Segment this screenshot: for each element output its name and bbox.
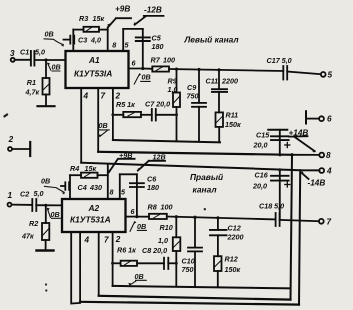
- svg-text:6: 6: [327, 115, 332, 124]
- svg-text:47к: 47к: [21, 232, 34, 241]
- svg-text:750: 750: [182, 265, 194, 274]
- svg-text:С17 5,0: С17 5,0: [267, 56, 292, 65]
- svg-text:2200: 2200: [227, 233, 244, 242]
- svg-text:20,0: 20,0: [252, 182, 267, 191]
- svg-text:А2: А2: [88, 203, 100, 213]
- svg-text:3: 3: [10, 49, 15, 58]
- svg-text:0В: 0В: [45, 30, 54, 39]
- svg-text:1,0: 1,0: [158, 236, 168, 245]
- svg-text:4: 4: [326, 167, 332, 176]
- svg-text:0В: 0В: [99, 121, 108, 130]
- svg-text:С1: С1: [20, 48, 29, 57]
- svg-text:100: 100: [161, 203, 173, 212]
- svg-text:180: 180: [152, 42, 164, 51]
- svg-text:150к: 150к: [225, 265, 241, 274]
- svg-text:-14В: -14В: [308, 179, 326, 188]
- svg-text:8: 8: [326, 151, 331, 160]
- svg-text:А1: А1: [88, 55, 100, 65]
- svg-text:2200: 2200: [221, 77, 238, 86]
- svg-text:С15: С15: [256, 131, 270, 140]
- svg-text:0В: 0В: [135, 272, 144, 281]
- svg-text:0В: 0В: [41, 177, 50, 186]
- svg-text:С16: С16: [255, 171, 269, 180]
- svg-text:4: 4: [84, 236, 90, 245]
- svg-text:R1: R1: [27, 78, 36, 87]
- svg-text:8: 8: [112, 41, 116, 50]
- svg-text:R6 1к: R6 1к: [117, 246, 136, 255]
- svg-text:С3: С3: [78, 36, 87, 45]
- svg-text:R2: R2: [29, 219, 38, 228]
- svg-text:4,0: 4,0: [90, 36, 101, 45]
- svg-text:R5 1к: R5 1к: [116, 100, 135, 109]
- svg-text:4: 4: [83, 92, 89, 101]
- svg-text:1,0: 1,0: [168, 85, 178, 94]
- svg-text:0В: 0В: [51, 210, 60, 219]
- svg-text:5: 5: [328, 71, 333, 80]
- svg-text:2: 2: [115, 235, 121, 244]
- svg-text:канал: канал: [193, 185, 218, 195]
- svg-text:R8: R8: [148, 203, 157, 212]
- svg-text:2: 2: [8, 135, 14, 144]
- svg-text:R10: R10: [160, 223, 173, 232]
- svg-text:R12: R12: [225, 255, 238, 264]
- svg-text:4,7к: 4,7к: [25, 88, 40, 97]
- svg-text:Правый: Правый: [190, 172, 223, 182]
- svg-text:С7 20,0: С7 20,0: [145, 100, 170, 109]
- svg-text:100: 100: [163, 56, 175, 65]
- svg-text:180: 180: [147, 183, 159, 192]
- svg-text:12В: 12В: [153, 153, 166, 162]
- svg-text:+14В: +14В: [289, 129, 309, 138]
- svg-text:R4: R4: [70, 164, 79, 173]
- svg-text:5,0: 5,0: [34, 189, 44, 198]
- svg-text:R7: R7: [151, 56, 161, 65]
- svg-text:750: 750: [187, 92, 199, 101]
- svg-text:20,0: 20,0: [253, 141, 268, 150]
- svg-text:С18 5,0: С18 5,0: [259, 202, 284, 211]
- svg-text:К1УТ53IА: К1УТ53IА: [74, 69, 112, 79]
- svg-text:15к: 15к: [85, 164, 97, 173]
- svg-text:+9В: +9В: [115, 5, 130, 14]
- svg-text:15к: 15к: [93, 14, 105, 23]
- svg-text:0В: 0В: [142, 73, 151, 82]
- svg-text:1: 1: [8, 191, 13, 200]
- svg-text:К1УТ531А: К1УТ531А: [70, 215, 111, 225]
- svg-text:R11: R11: [226, 111, 239, 120]
- svg-text:7: 7: [101, 92, 106, 101]
- svg-text:430: 430: [89, 183, 102, 192]
- svg-text:0В: 0В: [137, 222, 146, 231]
- svg-text:7: 7: [327, 218, 332, 227]
- svg-text:С12: С12: [228, 224, 241, 233]
- svg-text:150к: 150к: [225, 120, 241, 129]
- svg-text:7: 7: [104, 236, 109, 245]
- svg-text:+9В: +9В: [119, 151, 132, 160]
- svg-text:С2: С2: [20, 190, 29, 199]
- svg-text:0В: 0В: [52, 63, 61, 72]
- svg-text:5,0: 5,0: [35, 48, 45, 57]
- svg-text:8: 8: [110, 188, 114, 197]
- svg-text:С8 20,0: С8 20,0: [142, 246, 167, 255]
- svg-text:Левый канал: Левый канал: [184, 35, 240, 45]
- svg-text:С4: С4: [78, 183, 87, 192]
- svg-text:С11: С11: [206, 77, 219, 86]
- svg-text:R3: R3: [79, 14, 88, 23]
- svg-text:-12В: -12В: [144, 6, 162, 15]
